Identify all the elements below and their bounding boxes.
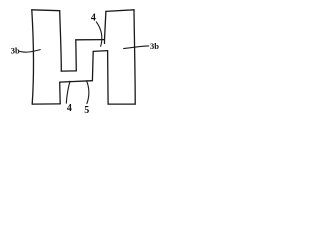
step vertical V1 (web upper) (75, 40, 78, 71)
right part 3b top edge (106, 10, 134, 12)
left part 3b bottom edge (32, 103, 60, 105)
leader line for bottom label 4 (66, 81, 70, 103)
svg-text:4: 4 (67, 103, 72, 114)
leader line for left label 3b (20, 50, 40, 53)
svg-text:5: 5 (84, 105, 89, 116)
step horizontal H4 (web bottom) (60, 81, 93, 82)
svg-text:3b: 3b (11, 46, 20, 56)
right part 3b right edge (134, 10, 135, 104)
left part 3b top edge (32, 9, 60, 12)
left part 3b left edge (32, 10, 34, 104)
left part 3b lower right edge (59, 82, 62, 104)
left part 3b upper right edge (60, 11, 62, 71)
svg-text:4: 4 (91, 13, 96, 24)
right part 3b bottom edge (108, 103, 135, 105)
step vertical V3 (web lower) (91, 51, 94, 80)
right part 3b left edge with overshoot (105, 11, 106, 43)
leader line for top label 4 (96, 22, 102, 47)
leader line for label 5 (87, 81, 89, 104)
right part 3b lower left edge (107, 51, 110, 105)
step horizontal H3 (web lower-right) (93, 50, 107, 53)
step horizontal H1 (web top) (76, 39, 105, 41)
leader line for right label 3b (124, 46, 149, 49)
step horizontal H2 (web upper-left) (61, 70, 76, 72)
svg-text:3b: 3b (150, 41, 159, 51)
